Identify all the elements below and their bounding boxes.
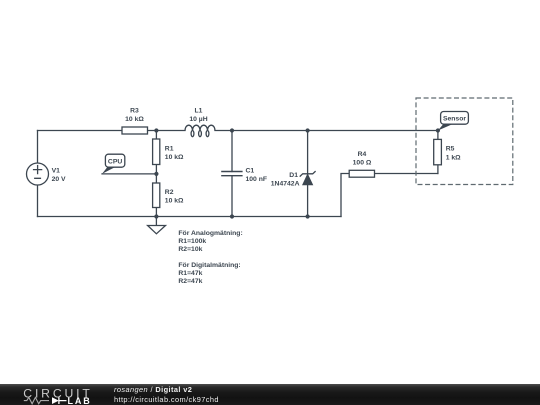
node sensor junction	[436, 128, 440, 132]
svg-text:100 nF: 100 nF	[246, 176, 268, 183]
wire D1 top	[307, 131, 309, 174]
resistor R2	[153, 183, 160, 208]
svg-text:R1: R1	[165, 146, 174, 153]
node R2 bottom junction	[154, 214, 158, 218]
footer text	[114, 384, 414, 405]
wire CPU branch	[102, 173, 156, 175]
svg-text:1N4742A: 1N4742A	[271, 180, 300, 187]
resistor R1	[153, 139, 160, 165]
wire R2 bottom	[155, 208, 157, 217]
svg-text:V1: V1	[52, 168, 61, 175]
wire R4 left riser	[341, 174, 349, 217]
wire R1 bottom	[155, 165, 157, 174]
node C1 bottom junction	[230, 214, 234, 218]
footer bar	[0, 384, 540, 405]
node R1/R2/CPU junction	[154, 172, 158, 176]
flag CPU	[102, 154, 125, 174]
wire top rail left	[38, 130, 123, 132]
svg-text:För Analogmätning:: För Analogmätning:	[178, 230, 242, 237]
wire R2 top	[155, 174, 157, 183]
footer logo CIRCUIT LAB	[0, 384, 110, 405]
svg-text:För Digitalmätning:: För Digitalmätning:	[178, 262, 240, 269]
resistor R3	[122, 127, 148, 134]
wire left vertical above V1	[37, 131, 39, 164]
svg-text:CPU: CPU	[108, 159, 122, 166]
svg-text:10 kΩ: 10 kΩ	[125, 116, 144, 123]
resistor R4	[349, 170, 374, 177]
wire R5 bottom	[437, 165, 439, 174]
diode D1 zener	[300, 171, 316, 185]
wire bottom rail	[38, 216, 342, 218]
svg-text:10 kΩ: 10 kΩ	[165, 154, 184, 161]
svg-text:L1: L1	[195, 108, 203, 115]
svg-text:LAB: LAB	[68, 396, 92, 405]
svg-text:R2=47k: R2=47k	[178, 278, 202, 285]
svg-text:R5: R5	[446, 145, 455, 152]
flag Sensor	[438, 112, 469, 131]
wire C1 bottom	[231, 176, 233, 217]
svg-text:Sensor: Sensor	[443, 116, 466, 123]
wire D1 bottom	[307, 185, 309, 217]
junction dots	[154, 128, 440, 218]
svg-text:R3: R3	[130, 108, 139, 115]
wire top rail mid	[148, 130, 186, 132]
wire C1 top	[231, 131, 233, 172]
svg-text:C1: C1	[246, 167, 255, 174]
svg-text:10 µH: 10 µH	[189, 116, 207, 123]
voltage source V1	[27, 163, 49, 185]
node C1 top junction	[230, 128, 234, 132]
resistor R5	[434, 139, 442, 164]
inductor L1	[185, 125, 215, 137]
svg-text:R2: R2	[165, 189, 174, 196]
svg-text:D1: D1	[289, 172, 298, 179]
wire R4 right	[375, 173, 438, 175]
node D1 top junction	[306, 128, 310, 132]
svg-text:10 kΩ: 10 kΩ	[165, 197, 184, 204]
svg-text:R4: R4	[358, 151, 367, 158]
svg-text:1 kΩ: 1 kΩ	[446, 154, 461, 161]
wire ground stub	[155, 217, 157, 226]
svg-text:20 V: 20 V	[52, 176, 66, 183]
wire left vertical below V1	[37, 185, 39, 217]
capacitor C1	[221, 172, 242, 176]
svg-text:R2=10k: R2=10k	[178, 246, 202, 253]
node R3/R1 junction	[154, 128, 158, 132]
svg-text:R1=47k: R1=47k	[178, 270, 202, 277]
ground	[148, 226, 166, 234]
wire R1 top	[155, 131, 157, 140]
dashed sensor box	[416, 98, 513, 185]
svg-text:R1=100k: R1=100k	[178, 238, 206, 245]
svg-text:100 Ω: 100 Ω	[353, 159, 372, 166]
wire top rail right	[215, 130, 438, 132]
wire R5 top	[437, 131, 439, 140]
node D1 bottom junction	[306, 214, 310, 218]
